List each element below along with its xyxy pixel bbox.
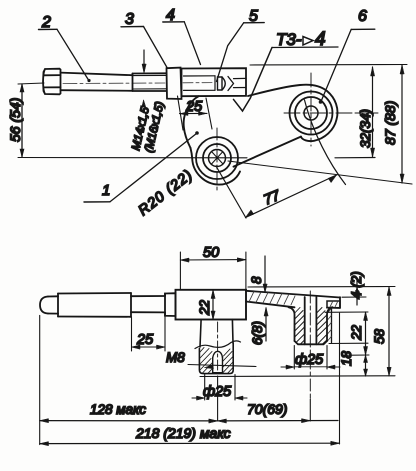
second boss (bottom view section)	[289, 297, 333, 344]
weld V (T3 leader arrow)	[234, 48, 273, 112]
bottom extension verticals	[40, 313, 340, 445]
label 3	[121, 11, 167, 68]
right side extension lines	[200, 287, 395, 377]
svg-text:22: 22	[349, 324, 364, 341]
svg-text:8: 8	[249, 276, 264, 284]
label 6	[319, 8, 375, 104]
narrow threaded section (bottom view)	[131, 296, 165, 312]
svg-text:87 (88): 87 (88)	[382, 101, 398, 145]
bore cone point	[228, 77, 234, 91]
label 4	[163, 7, 201, 65]
77 dimension	[216, 100, 346, 218]
small hole inner hatch (thread marks)	[212, 152, 224, 165]
extension line top (rod axis)	[18, 83, 44, 84]
sleeve outline	[182, 68, 247, 96]
dimension 18 (right)	[364, 355, 368, 376]
dimension phi25 first boss	[192, 375, 247, 401]
rod main body (bottom view)	[58, 293, 131, 317]
M8 label and leader	[166, 350, 256, 369]
rod centerline	[63, 82, 214, 85]
second boss hatching	[295, 308, 327, 345]
svg-text:22: 22	[197, 299, 212, 316]
top extension line for 87(88)	[250, 64, 407, 67]
dimension 50	[180, 252, 246, 289]
svg-text:50: 50	[203, 245, 219, 261]
rod body	[61, 73, 133, 91]
plate hatching left part	[249, 291, 295, 304]
svg-text:6: 6	[358, 8, 367, 25]
label 2	[39, 14, 91, 82]
text M14x1,5 (M16x1,5) rotated	[130, 100, 166, 154]
internal pin with rounded cap	[218, 77, 226, 90]
block (sleeve side view)	[176, 290, 247, 320]
dimension phi25 second boss	[281, 346, 340, 370]
svg-text:3: 3	[125, 11, 134, 28]
dimension 128 maks	[40, 419, 218, 423]
small hole boss circles	[196, 137, 238, 179]
svg-text:70(69): 70(69)	[247, 401, 287, 417]
first boss centerline	[217, 322, 219, 373]
dimension 218 (219) maks	[40, 441, 340, 445]
bottom extension line for 87(88), sloped	[228, 161, 412, 184]
dimension 58 (right)	[387, 287, 391, 376]
first boss hatching	[200, 348, 233, 374]
dimension 4(2)	[355, 279, 358, 305]
dimension 22 (right)	[364, 312, 368, 355]
svg-text:56 (54): 56 (54)	[7, 98, 23, 142]
svg-text:77: 77	[262, 187, 284, 208]
hex head	[43, 69, 61, 95]
svg-text:18: 18	[339, 350, 354, 366]
svg-text:М8: М8	[166, 350, 185, 365]
svg-text:58: 58	[372, 328, 387, 344]
label 1	[84, 131, 199, 202]
rod dome end	[40, 296, 58, 313]
svg-text:2: 2	[41, 14, 51, 31]
dimension 87(88)	[400, 65, 404, 183]
dimension 25 (bottom view)	[132, 316, 166, 351]
dimension 32(34)	[335, 67, 375, 158]
plate arm (bottom view, sectioned)	[246, 291, 340, 308]
collar (bottom view)	[165, 293, 176, 316]
dimension 25 (top view)	[178, 96, 213, 130]
dimension 8 (plate thickness)	[263, 256, 267, 292]
svg-text:25: 25	[136, 332, 154, 348]
extension line bottom (small hole axis), long to small boss	[18, 157, 247, 159]
T3 weld designation text	[272, 29, 338, 50]
svg-text:6(8): 6(8)	[250, 321, 265, 345]
M8 hole	[213, 351, 223, 372]
second boss centerline	[309, 291, 311, 399]
dimension 56(54) vertical line	[20, 84, 24, 157]
inner lines right of cone	[234, 78, 247, 87]
svg-text:1: 1	[102, 182, 110, 199]
svg-text:ф25: ф25	[295, 352, 324, 368]
M14 leader arrow to thread	[142, 50, 146, 73]
svg-text:4 (2): 4 (2)	[349, 271, 364, 299]
big hole boss circles	[290, 92, 333, 135]
small hole vertical centerline	[216, 128, 218, 190]
dimension 6(8)	[264, 308, 268, 342]
svg-text:128 макс: 128 макс	[90, 402, 146, 417]
threaded section	[133, 73, 167, 91]
sleeve bore lines	[184, 76, 216, 91]
dimension 70(69)	[218, 419, 338, 423]
svg-text:32(34): 32(34)	[358, 109, 373, 148]
big hole centerlines	[284, 73, 381, 146]
label 5	[217, 8, 265, 82]
svg-text:Т3-: Т3-	[276, 30, 302, 49]
dimension 22 inside block	[211, 290, 215, 320]
plate end piece (right)	[327, 301, 340, 343]
first boss (M8), partial section	[195, 320, 241, 374]
svg-text:218 (219) макс: 218 (219) макс	[135, 425, 231, 441]
lever plate outline	[184, 85, 338, 185]
collar	[167, 68, 182, 99]
